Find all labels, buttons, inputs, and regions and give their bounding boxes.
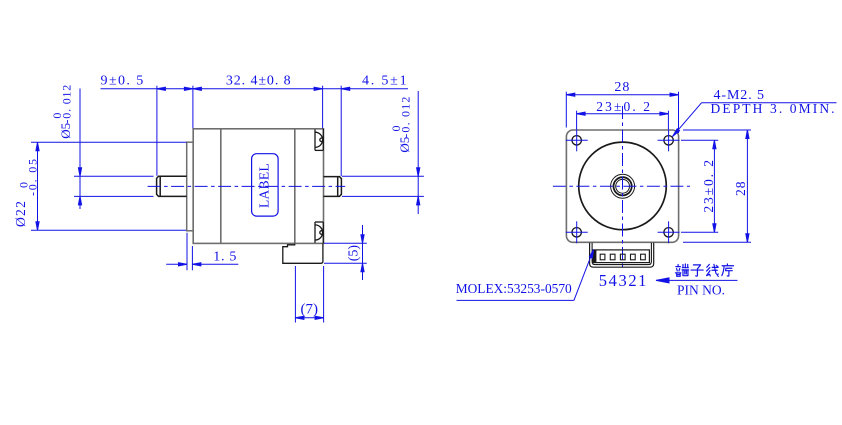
svg-text:Ø5: Ø5 [58, 123, 73, 139]
svg-text:Ø5: Ø5 [397, 137, 412, 153]
dimension 28 top [566, 92, 678, 133]
label plate [252, 154, 279, 216]
leader MOLEX connector [457, 250, 594, 301]
leader 4-M2.5 [673, 103, 837, 137]
svg-text:0: 0 [389, 126, 403, 132]
dim text Ø22 0/-0.05 [13, 157, 40, 227]
svg-text:LABEL: LABEL [256, 163, 271, 208]
svg-text:Ø22: Ø22 [13, 200, 28, 227]
dimension 23±0.2 top [577, 111, 669, 130]
svg-text:MOLEX:53253-0570: MOLEX:53253-0570 [456, 281, 572, 296]
svg-text:23±0. 2: 23±0. 2 [596, 99, 652, 114]
rear endcap screw recess bottom [315, 222, 323, 243]
svg-text:(7): (7) [301, 302, 319, 318]
dim text Ø5 0/-0.012 right [389, 95, 413, 152]
dim text Ø5 0/-0.012 left [50, 84, 74, 139]
rear shaft (right) [324, 177, 342, 197]
motor body side view outline [193, 129, 323, 244]
connector pins [600, 254, 645, 260]
label 端子线序 (CJK strokes) [675, 264, 688, 276]
svg-text:(5): (5) [346, 245, 361, 262]
dimension Ø5 -0.012 left [74, 89, 154, 210]
rear endcap screw recess top [315, 129, 323, 151]
svg-text:DEPTH 3. 0MIN.: DEPTH 3. 0MIN. [711, 101, 837, 116]
dimension Ø22 -0.05 [31, 142, 187, 230]
svg-text:PIN NO.: PIN NO. [677, 283, 725, 298]
svg-text:4. 5±1: 4. 5±1 [362, 74, 408, 89]
front shaft (left) [157, 176, 187, 196]
dimension 28 right [683, 130, 751, 242]
centerline side view [148, 185, 346, 187]
mounting hole centerline crosses [566, 129, 680, 243]
svg-text:0: 0 [17, 182, 31, 188]
connector front view [590, 243, 654, 267]
dimension 23±0.2 right [681, 140, 718, 232]
terminal order arrow [656, 278, 738, 283]
svg-text:1. 5: 1. 5 [213, 250, 237, 265]
svg-text:-0. 05: -0. 05 [25, 157, 39, 196]
svg-text:54321: 54321 [599, 271, 648, 290]
dimension (7) [295, 266, 323, 323]
svg-text:28: 28 [733, 181, 748, 197]
front view centerlines [553, 106, 690, 268]
pilot boss flange [187, 142, 194, 231]
svg-text:0: 0 [50, 113, 64, 119]
pilot boss circle Ø22 [579, 142, 667, 230]
dimension Ø5 -0.012 right [342, 91, 424, 214]
svg-text:9±0. 5: 9±0. 5 [101, 74, 145, 89]
front view mounting face square [566, 130, 678, 242]
svg-text:32. 4±0. 8: 32. 4±0. 8 [226, 74, 292, 89]
dimension 9±0.5 / 32.4±0.8 / 4.5±1 shared line [101, 86, 409, 177]
dimension 1.5 [166, 233, 238, 270]
dimension (5) [324, 225, 367, 280]
connector housing side profile [283, 244, 323, 264]
svg-text:28: 28 [614, 80, 630, 95]
mounting holes 4-M2.5 [572, 136, 673, 237]
shaft circles [611, 174, 635, 198]
svg-text:23±0. 2: 23±0. 2 [701, 158, 716, 212]
